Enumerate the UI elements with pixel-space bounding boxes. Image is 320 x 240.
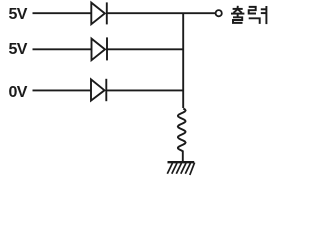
- node: common output bus (vertical): [182, 13, 184, 108]
- svg-text:5V: 5V: [9, 6, 28, 23]
- label 출력 (output), hand-drawn Hangul: [231, 6, 266, 24]
- wire: input 2 to diode D2 anode: [33, 48, 92, 50]
- wire: diode D1 cathode to output node: [107, 12, 216, 14]
- svg-text:5V: 5V: [9, 41, 28, 58]
- svg-text:0V: 0V: [9, 84, 28, 101]
- glyph 출: [231, 6, 244, 23]
- wire: input 1 to diode D1 anode: [33, 12, 92, 14]
- diode D2: [92, 37, 108, 60]
- wire: input 3 to diode D3 anode: [33, 89, 92, 91]
- wire: diode D3 cathode to bus node: [106, 89, 183, 91]
- glyph 력: [249, 6, 267, 24]
- ground: [167, 162, 194, 175]
- wire: resistor to ground: [182, 151, 184, 163]
- diode D3: [91, 79, 106, 101]
- resistor R (wavy coil): [178, 109, 186, 152]
- output terminal (open circle): [216, 10, 222, 16]
- diode D1: [91, 2, 107, 24]
- wire: diode D2 cathode to bus node: [107, 48, 183, 50]
